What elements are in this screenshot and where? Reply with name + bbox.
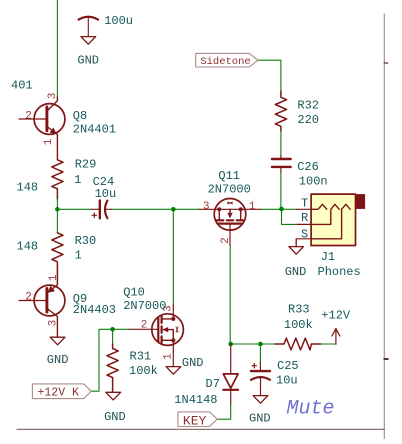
- transistor Q11 (2N7000 MOSFET): [199, 199, 261, 246]
- svg-text:J1: J1: [321, 250, 335, 264]
- svg-text:2: 2: [220, 237, 232, 244]
- svg-text:1: 1: [249, 201, 256, 213]
- capacitor C26: [272, 156, 291, 173]
- svg-text:Sidetone: Sidetone: [200, 56, 250, 68]
- ground under R31: [106, 392, 121, 400]
- global label +12V K: [32, 384, 91, 400]
- wire Q11 gate down to mute node: [229, 245, 231, 344]
- svg-text:1: 1: [48, 274, 60, 281]
- svg-text:+12V: +12V: [321, 309, 351, 323]
- diode D7: [223, 344, 238, 404]
- resistor R30: [56, 209, 58, 233]
- svg-text:R32: R32: [297, 98, 319, 112]
- resistor R31: [112, 329, 114, 344]
- global label KEY: [178, 412, 217, 428]
- wire main horizontal right of C24: [112, 208, 199, 210]
- capacitor C24: [91, 200, 112, 218]
- ground under C25: [253, 396, 268, 404]
- svg-text:1: 1: [162, 353, 174, 360]
- svg-text:+12V K: +12V K: [38, 387, 80, 400]
- sheet border bottom: [17, 428, 385, 430]
- svg-text:401: 401: [11, 78, 33, 92]
- S contact: [311, 204, 350, 239]
- wire mute node horizontal: [231, 343, 275, 345]
- wire R32 to C26: [280, 131, 282, 156]
- svg-text:T: T: [301, 196, 308, 210]
- svg-text:GND: GND: [104, 410, 126, 424]
- svg-text:KEY: KEY: [183, 413, 207, 428]
- svg-text:3: 3: [48, 320, 60, 327]
- ground under Q9: [50, 337, 65, 345]
- svg-text:Mute: Mute: [287, 398, 335, 421]
- svg-text:2: 2: [141, 320, 148, 332]
- ground under S pin: [289, 239, 304, 254]
- svg-text:2N7000: 2N7000: [123, 299, 166, 313]
- wire left column vertical: [56, 0, 58, 97]
- svg-text:2N4403: 2N4403: [73, 303, 116, 317]
- wire R33 to +12V: [321, 343, 336, 345]
- transistor Q8: [19, 97, 65, 160]
- svg-text:100n: 100n: [299, 174, 328, 188]
- svg-text:GND: GND: [249, 411, 271, 425]
- svg-text:R30: R30: [75, 234, 97, 248]
- svg-text:R31: R31: [130, 350, 152, 364]
- svg-text:R33: R33: [288, 303, 310, 317]
- svg-text:1: 1: [43, 138, 55, 145]
- wire sidetone to R32: [258, 60, 281, 91]
- svg-text:2: 2: [25, 292, 32, 304]
- svg-text:R: R: [301, 211, 308, 225]
- svg-text:100u: 100u: [104, 14, 133, 28]
- svg-text:148: 148: [17, 180, 39, 194]
- resistor R32: [275, 91, 286, 131]
- wire main node down to Q10 drain: [172, 209, 174, 304]
- svg-text:10u: 10u: [95, 187, 117, 201]
- svg-text:Q10: Q10: [123, 285, 145, 299]
- junction node C24-Q10: [171, 207, 176, 212]
- wire C26 to junction: [280, 172, 283, 209]
- junction node mute-C25: [258, 342, 263, 347]
- svg-text:GND: GND: [47, 353, 69, 367]
- wire junction to R pin of J1: [282, 209, 297, 224]
- svg-text:3: 3: [47, 93, 59, 100]
- svg-text:GND: GND: [285, 265, 307, 279]
- transistor Q10 (2N7000 MOSFET): [130, 304, 184, 366]
- resistor R29: [52, 160, 63, 199]
- border tick y359: [384, 358, 388, 360]
- wire +12VK label to junction up to Q10 gate: [91, 329, 130, 391]
- svg-text:10u: 10u: [276, 374, 298, 388]
- sheet border right: [383, 14, 385, 439]
- svg-text:3: 3: [203, 201, 210, 213]
- svg-text:C25: C25: [277, 359, 299, 373]
- junction node C26-J1: [279, 207, 284, 212]
- junction node R31-Q10 gate: [110, 327, 115, 332]
- connector J1 Phones: [311, 194, 365, 245]
- transistor Q9: [19, 284, 65, 337]
- wire main horizontal node A: [57, 208, 91, 210]
- svg-text:R29: R29: [75, 157, 97, 171]
- svg-text:148: 148: [17, 239, 39, 253]
- svg-text:2N4401: 2N4401: [73, 122, 116, 136]
- svg-text:1N4148: 1N4148: [174, 393, 217, 407]
- svg-text:D7: D7: [206, 377, 220, 391]
- junction node main-left: [55, 207, 60, 212]
- R contact: [311, 204, 339, 224]
- svg-text:2N7000: 2N7000: [208, 182, 251, 196]
- global label Sidetone: [196, 53, 258, 68]
- pin T stub: [296, 208, 311, 210]
- border tick y63: [384, 62, 387, 64]
- svg-text:2: 2: [25, 111, 32, 123]
- capacitor 100u bottom plate (cropped): [79, 17, 98, 20]
- svg-text:GND: GND: [77, 54, 99, 68]
- svg-text:100k: 100k: [129, 364, 158, 378]
- ground under 100u: [81, 37, 96, 45]
- wire node to C25: [259, 344, 261, 362]
- svg-text:1: 1: [75, 249, 82, 263]
- ground under Q10: [166, 367, 181, 375]
- svg-text:Q11: Q11: [218, 169, 240, 183]
- svg-text:220: 220: [297, 113, 319, 127]
- T contact: [311, 204, 327, 209]
- junction node mute-D7: [228, 342, 233, 347]
- pin S stub: [296, 238, 311, 240]
- svg-text:GND: GND: [182, 356, 204, 370]
- capacitor C25: [251, 362, 270, 395]
- resistor R33: [275, 338, 321, 350]
- svg-text:C26: C26: [297, 160, 319, 174]
- pin R stub: [296, 223, 311, 225]
- svg-text:100k: 100k: [284, 318, 313, 332]
- svg-text:Q8: Q8: [73, 109, 87, 123]
- svg-text:Phones: Phones: [318, 265, 361, 279]
- svg-text:1: 1: [74, 173, 81, 187]
- wire D7 to KEY: [217, 404, 230, 419]
- svg-text:S: S: [301, 228, 308, 242]
- power +12V: [332, 329, 340, 345]
